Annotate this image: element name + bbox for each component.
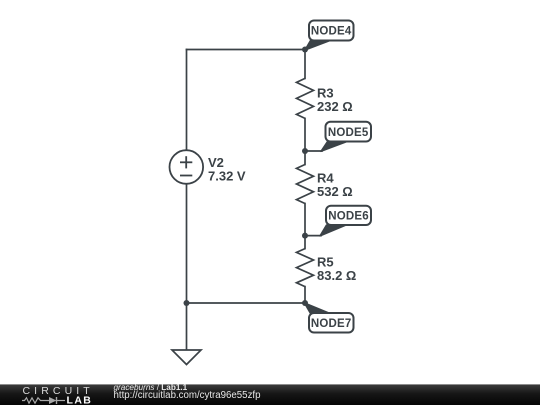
svg-text:NODE4: NODE4 [311,26,352,38]
wire NODE5 flag lead [305,150,322,152]
CircuitLab logo resistor squiggle [22,398,49,403]
node NODE6 flag box [326,206,371,225]
wire right vertical segment R5 bottom to NODE7 junction [304,287,306,303]
svg-text:83.2 Ω: 83.2 Ω [317,268,356,283]
resistor R5 labels: name R5, value 83.2 Ω [317,255,356,284]
voltage source V2 minus sign [180,175,192,177]
svg-text:LAB: LAB [67,395,93,405]
wire NODE6 flag lead [305,235,321,237]
footer bar [0,385,540,405]
wire ground stem [186,303,188,350]
node NODE7 flag box [309,313,354,333]
wire right vertical segment NODE4 to R3 top [304,50,306,79]
svg-text:532 Ω: 532 Ω [317,184,353,199]
node NODE5 flag tail [321,142,347,152]
resistor R3 labels: name R3, value 232 Ω [317,86,353,115]
wire left vertical lower (V2 - terminal to bottom junction) [186,184,188,303]
junction dot at ground node [184,300,190,306]
node NODE5 flag box [326,122,372,142]
ground symbol [172,350,201,365]
node NODE6 flag tail [320,225,346,236]
wire bottom horizontal (bottom junction to NODE7 junction) [187,302,306,304]
wire right vertical segment R3 bottom to NODE5 junction [304,118,306,151]
svg-text:http://circuitlab.com/cytra96e: http://circuitlab.com/cytra96e55zfp [114,390,261,401]
wire left vertical upper (top corner to V2 + terminal) [186,50,188,151]
CircuitLab logo diode [49,397,57,404]
svg-text:NODE5: NODE5 [328,127,369,139]
voltage source V2 circle [170,150,204,184]
node NODE4 flag tail [305,41,330,51]
svg-text:7.32 V: 7.32 V [208,169,246,184]
junction dot at NODE5 [302,148,308,154]
resistor R5 zigzag [297,249,314,287]
wire right vertical segment NODE5 junction to R4 top [304,151,306,165]
wire right vertical segment NODE6 junction to R5 top [304,236,306,249]
node NODE4 flag box [309,21,354,41]
wire top horizontal (V2 top to NODE4 junction) [187,49,306,51]
node NODE7 flag tail [305,303,331,314]
voltage source V2 plus sign [180,156,192,168]
voltage source V2 labels: name V2, value 7.32 V [208,155,246,184]
footer bar top edge [0,384,540,385]
svg-text:232 Ω: 232 Ω [317,99,353,114]
svg-text:NODE7: NODE7 [311,318,352,330]
resistor R4 zigzag [297,165,314,204]
wire right vertical segment R4 bottom to NODE6 junction [304,204,306,236]
junction dot at NODE4 [302,47,308,53]
junction dot at NODE6 [302,233,308,239]
resistor R4 labels: name R4, value 532 Ω [317,171,353,200]
svg-text:NODE6: NODE6 [328,211,369,223]
resistor R3 zigzag [297,78,314,118]
junction dot at NODE7 [302,300,308,306]
